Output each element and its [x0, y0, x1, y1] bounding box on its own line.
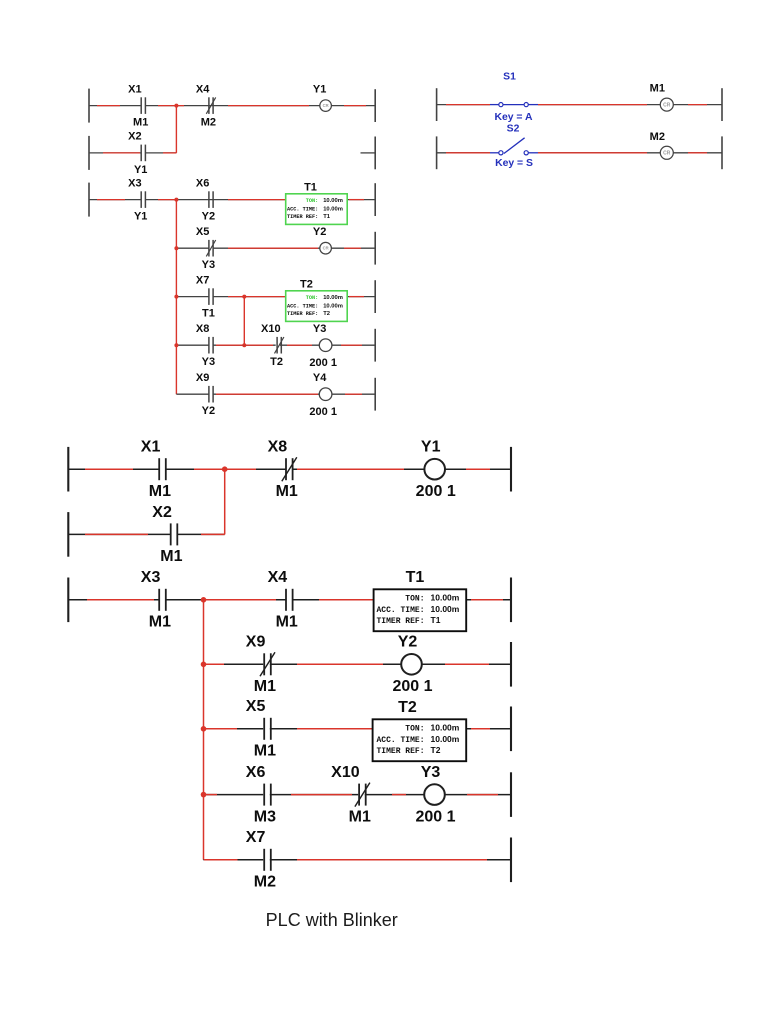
- svg-text:ACC. TIME:: ACC. TIME:: [376, 606, 424, 615]
- node junction mini rung 1 / branch X2: [174, 104, 178, 108]
- svg-text:X1: X1: [141, 439, 161, 456]
- relay coil M1 (CR): [650, 83, 674, 112]
- svg-text:CR: CR: [323, 246, 329, 251]
- right power rail, ladder rung 6: [510, 772, 512, 817]
- contact X6 (NO, coil Y2): [196, 177, 215, 222]
- node junction ladder rung 1 / branch X2: [222, 466, 228, 472]
- right power rail, ladder rung 1: [510, 447, 512, 492]
- svg-text:TON:: TON:: [405, 594, 424, 603]
- node junction mini rung 5: [174, 295, 178, 299]
- svg-text:M1: M1: [254, 743, 276, 760]
- contact X7 (NO, timer T1): [196, 274, 215, 319]
- svg-text:Y3: Y3: [421, 764, 441, 781]
- wire ladder rung 6: [204, 794, 512, 796]
- svg-text:Y1: Y1: [134, 211, 147, 223]
- right power rail segment, mini ladder rung 4: [374, 232, 376, 265]
- contact X6 (NO, relay M3) large: [246, 764, 276, 825]
- svg-text:M1: M1: [133, 117, 148, 129]
- svg-text:M1: M1: [254, 678, 276, 695]
- right power rail segment, mini ladder rung 7: [374, 378, 376, 411]
- svg-text:T2: T2: [323, 311, 330, 317]
- contact X10 (NC, relay M1) large: [331, 764, 371, 825]
- left power rail segment, mini ladder rung 1: [88, 89, 90, 123]
- svg-text:CR: CR: [663, 151, 671, 157]
- energized overlay ladder rung 5: [204, 728, 490, 730]
- svg-text:10.00m: 10.00m: [323, 304, 343, 310]
- branch wire ladder rung 1 to rung 2: [224, 471, 226, 534]
- svg-text:TIMER REF:: TIMER REF:: [376, 747, 424, 756]
- svg-text:T2: T2: [270, 356, 283, 368]
- right power rail, ladder rung 3: [510, 578, 512, 623]
- svg-text:M1: M1: [276, 483, 298, 500]
- contact X1 (NO, relay M1): [128, 83, 148, 128]
- svg-text:X10: X10: [331, 764, 360, 781]
- svg-text:X4: X4: [268, 569, 288, 586]
- left power rail, switch rung 1: [436, 88, 438, 121]
- svg-text:X4: X4: [196, 83, 210, 95]
- node junction ladder rung 5: [201, 726, 207, 732]
- svg-text:M1: M1: [149, 483, 171, 500]
- node junction ladder rung 6: [201, 792, 207, 798]
- svg-text:M1: M1: [149, 614, 171, 631]
- contact X8 (NO, coil Y3): [196, 323, 215, 368]
- caption: PLC with Blinker: [266, 910, 398, 930]
- contact X4 (NC, relay M2): [196, 83, 216, 128]
- svg-text:PLC with Blinker: PLC with Blinker: [266, 910, 398, 930]
- svg-text:M1: M1: [160, 548, 182, 565]
- left power rail segment, mini ladder rung 2: [88, 136, 90, 170]
- svg-text:X6: X6: [246, 764, 266, 781]
- output coil Y1 (200 1) large: [416, 439, 456, 500]
- svg-text:Y2: Y2: [398, 634, 418, 651]
- svg-text:Y1: Y1: [421, 439, 441, 456]
- svg-text:T1: T1: [323, 214, 331, 220]
- svg-text:10.00m: 10.00m: [431, 592, 460, 602]
- svg-text:Y1: Y1: [313, 83, 326, 95]
- wire ladder rung 7: [204, 859, 512, 861]
- node junction ladder rung 4: [201, 662, 207, 668]
- timer T1 (mini, TON 10.00m): [286, 181, 348, 224]
- contact X1 (NO, relay M1) large: [141, 439, 171, 500]
- contact X3 (NO, relay M1) large: [141, 569, 171, 630]
- svg-text:T1: T1: [202, 308, 215, 320]
- branch wire mini rung 5 to rung 6: [243, 298, 245, 345]
- wire switch rung 1: [437, 104, 722, 106]
- contact X3 (NO, coil Y1): [128, 177, 147, 222]
- contact X2 (NO, coil Y1): [128, 131, 147, 176]
- svg-text:M3: M3: [254, 808, 276, 825]
- contact X10 (NC, timer T2): [261, 323, 284, 368]
- svg-text:M1: M1: [276, 614, 298, 631]
- energized overlay ladder rung 2: [85, 533, 225, 535]
- svg-text:Y2: Y2: [202, 405, 215, 417]
- svg-text:X5: X5: [196, 226, 209, 238]
- svg-text:TIMER REF:: TIMER REF:: [287, 214, 318, 220]
- wire mini rung 1: [89, 105, 375, 107]
- svg-text:Y2: Y2: [313, 226, 326, 238]
- branch wire mini junction to rung 2: [175, 107, 177, 153]
- node junction mini rung 6: [174, 343, 178, 347]
- svg-text:T1: T1: [406, 569, 425, 586]
- svg-text:X10: X10: [261, 323, 281, 335]
- contact X5 (NO, relay M1) large: [246, 698, 276, 759]
- energized wire overlay mini rung 6: [216, 344, 362, 346]
- svg-text:TON:: TON:: [306, 295, 318, 301]
- energized overlay switch rung 2: [446, 152, 707, 154]
- svg-text:X3: X3: [128, 177, 141, 189]
- svg-text:Y3: Y3: [202, 356, 215, 368]
- energized wire overlay mini rung 3: [97, 199, 364, 201]
- energized wire overlay mini rung 5: [228, 296, 364, 298]
- svg-text:X7: X7: [246, 829, 266, 846]
- svg-text:200 1: 200 1: [309, 357, 337, 369]
- left power rail segment, mini ladder rung 3: [88, 183, 90, 217]
- svg-text:X6: X6: [196, 177, 209, 189]
- wire mini rung 6: [176, 344, 375, 346]
- svg-text:M2: M2: [650, 131, 665, 143]
- contact X5 (NC, coil Y3): [196, 226, 216, 271]
- node junction mini rung 4: [174, 246, 178, 250]
- svg-text:Y3: Y3: [202, 259, 215, 271]
- timer T2 (TON 10.00m) large: [373, 699, 467, 761]
- svg-text:CR: CR: [323, 103, 329, 108]
- node junction mini rung 3 branch start: [174, 198, 178, 202]
- svg-text:10.00m: 10.00m: [431, 604, 460, 614]
- right power rail segment, mini ladder rung 2: [374, 137, 376, 170]
- wire mini rung 5: [176, 296, 375, 298]
- switch S1 (closed, Key = A): [490, 72, 538, 124]
- svg-text:CR: CR: [663, 102, 671, 108]
- wire mini rung 7: [176, 393, 375, 395]
- energized overlay ladder rung 4: [204, 663, 489, 665]
- svg-text:Key = S: Key = S: [495, 158, 533, 169]
- svg-text:200 1: 200 1: [309, 406, 337, 418]
- right stub wire mini rung 2: [361, 152, 376, 154]
- svg-text:TIMER REF:: TIMER REF:: [287, 311, 318, 317]
- svg-text:10.00m: 10.00m: [431, 734, 460, 744]
- svg-text:Y2: Y2: [202, 211, 215, 223]
- contact X2 (NO, relay M1) large: [152, 504, 182, 565]
- svg-text:T1: T1: [304, 181, 317, 193]
- energized overlay ladder rung 6: [204, 794, 498, 796]
- left power rail, switch rung 2: [436, 136, 438, 169]
- energized overlay switch rung 1: [446, 104, 707, 106]
- right power rail segment, mini ladder rung 6: [374, 329, 376, 362]
- svg-text:TON:: TON:: [306, 198, 318, 204]
- svg-text:M1: M1: [349, 808, 371, 825]
- wire ladder rung 3: [68, 599, 511, 601]
- right power rail, switch rung 1: [721, 88, 723, 121]
- energized overlay ladder rung 7: [204, 859, 487, 861]
- svg-text:S1: S1: [503, 72, 516, 83]
- svg-text:X9: X9: [246, 634, 266, 651]
- wire switch rung 2: [437, 152, 722, 154]
- wire ladder rung 5: [204, 728, 512, 730]
- svg-text:S2: S2: [507, 123, 520, 134]
- contact X8 (NC, relay M1) large: [268, 439, 298, 500]
- svg-text:Y3: Y3: [313, 323, 326, 335]
- right power rail segment, mini ladder rung 1: [374, 89, 376, 122]
- svg-text:Y4: Y4: [313, 372, 327, 384]
- svg-text:X8: X8: [268, 439, 288, 456]
- contact X9 (NO, coil Y2): [196, 372, 215, 417]
- wire mini rung 2 branch: [89, 152, 176, 154]
- svg-text:X1: X1: [128, 83, 141, 95]
- svg-text:10.00m: 10.00m: [431, 722, 460, 732]
- timer T2 (mini, TON 10.00m): [286, 278, 348, 321]
- energized wire overlay mini rung 4: [228, 247, 361, 249]
- svg-text:X2: X2: [128, 131, 141, 143]
- branch wire mini rung 3 down to rung 7: [175, 201, 177, 394]
- svg-text:10.00m: 10.00m: [323, 207, 343, 213]
- svg-text:200 1: 200 1: [392, 678, 432, 695]
- left power rail, ladder rung 3: [67, 578, 69, 623]
- left power rail, ladder rung 2: [67, 512, 69, 557]
- wire ladder rung 4: [204, 663, 512, 665]
- svg-text:200 1: 200 1: [416, 483, 456, 500]
- energized wire overlay mini rung 2: [103, 152, 176, 154]
- svg-text:ACC. TIME:: ACC. TIME:: [287, 207, 318, 213]
- output coil Y2 (200 1) large: [392, 634, 432, 695]
- svg-text:M1: M1: [650, 83, 665, 95]
- output coil Y4 (200 1) mini: [309, 372, 337, 418]
- branch wire ladder rung 3 down to rung 7: [203, 602, 205, 860]
- wire mini rung 3: [89, 199, 375, 201]
- svg-text:M2: M2: [254, 874, 276, 891]
- svg-text:X9: X9: [196, 372, 209, 384]
- svg-text:TIMER REF:: TIMER REF:: [376, 617, 424, 626]
- contact X4 (NO, relay M1) large: [268, 569, 298, 630]
- energized overlay ladder rung 3: [87, 599, 503, 601]
- svg-text:X2: X2: [152, 504, 172, 521]
- contact X7 (NO, relay M2) large: [246, 829, 276, 890]
- right power rail, ladder rung 5: [510, 707, 512, 752]
- output coil Y3 (200 1) mini: [309, 323, 337, 369]
- right power rail, ladder rung 7: [510, 838, 512, 883]
- relay coil M2 (CR): [650, 131, 674, 160]
- left power rail, ladder rung 1: [67, 447, 69, 492]
- node junction ladder rung 3 branch start: [201, 597, 207, 603]
- energized wire overlay mini rung 7: [216, 393, 362, 395]
- node junction mini rung 5 / branch to rung 6: [242, 295, 246, 299]
- svg-text:M2: M2: [201, 117, 216, 129]
- svg-text:200 1: 200 1: [415, 808, 455, 825]
- energized overlay ladder rung 1: [85, 468, 490, 470]
- svg-text:ACC. TIME:: ACC. TIME:: [376, 736, 424, 745]
- svg-text:Y1: Y1: [134, 164, 147, 176]
- svg-text:10.00m: 10.00m: [323, 295, 343, 301]
- svg-text:T2: T2: [431, 745, 441, 755]
- svg-text:X7: X7: [196, 274, 209, 286]
- energized wire overlay mini rung 1: [97, 105, 366, 107]
- svg-text:T2: T2: [300, 278, 313, 290]
- contact X9 (NC, relay M1) large: [246, 634, 276, 695]
- svg-text:X3: X3: [141, 569, 161, 586]
- right power rail segment, mini ladder rung 5: [374, 280, 376, 313]
- wire ladder rung 2 branch: [68, 533, 224, 535]
- svg-text:ACC. TIME:: ACC. TIME:: [287, 304, 318, 310]
- svg-text:Key = A: Key = A: [494, 112, 533, 123]
- switch S2 (open, Key = S): [490, 123, 538, 169]
- right power rail, ladder rung 4: [510, 642, 512, 687]
- svg-text:TON:: TON:: [405, 724, 424, 733]
- timer T1 (TON 10.00m) large: [374, 569, 467, 631]
- wire mini rung 4: [176, 247, 375, 249]
- svg-text:T2: T2: [398, 699, 417, 716]
- right power rail segment, mini ladder rung 3: [374, 183, 376, 216]
- svg-text:10.00m: 10.00m: [323, 198, 343, 204]
- wire ladder rung 1: [68, 468, 511, 470]
- right power rail, switch rung 2: [721, 136, 723, 169]
- svg-text:X8: X8: [196, 323, 209, 335]
- svg-text:X5: X5: [246, 698, 266, 715]
- output coil Y2 (CR) mini: [313, 226, 332, 254]
- output coil Y1 (CR) mini: [313, 83, 332, 111]
- output coil Y3 (200 1) large: [415, 764, 455, 825]
- node junction mini rung 6 / branch from rung 5: [242, 343, 246, 347]
- svg-text:T1: T1: [431, 615, 441, 625]
